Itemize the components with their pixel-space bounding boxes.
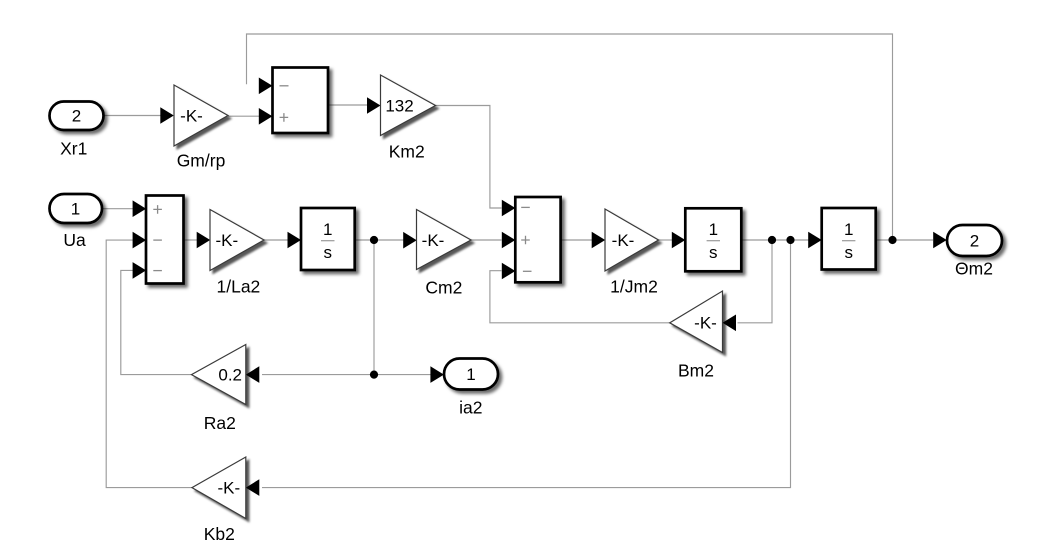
wire Km2 output down to Sum2 top input: [436, 106, 502, 209]
arrowhead into Gm/rp: [160, 107, 174, 124]
wire Gm/rp to Sum1 plus input: [228, 115, 260, 117]
arrowhead into ia2 outport: [430, 366, 444, 383]
arrowhead into 1/Jm2: [592, 232, 606, 249]
svg-text:Gm/rp: Gm/rp: [177, 151, 226, 171]
wire Ua to Sum3 plus input: [102, 208, 134, 210]
gain Kb2 (left pointing): [192, 457, 246, 519]
svg-text:Kb2: Kb2: [204, 524, 235, 544]
Sum1 plus sign: [280, 113, 289, 122]
wire 1/La2 to integrator 1: [264, 239, 288, 241]
svg-text:s: s: [709, 243, 718, 262]
Sum2 bottom minus sign: [523, 270, 532, 272]
sum block Sum1: [273, 68, 329, 134]
arrowhead into Sum2 bottom minus port: [502, 263, 516, 280]
integrator 3: [822, 208, 876, 270]
svg-text:-K-: -K-: [217, 479, 240, 498]
wire branch down to Bm2 input: [738, 240, 773, 323]
Sum3 middle minus sign: [153, 239, 162, 241]
inport Xr1 oval: [50, 102, 104, 131]
wire integrator 3 output to Theta m2 outport: [876, 239, 933, 241]
gain Gm/rp: [174, 85, 228, 146]
junction dot after integrator 2 (Bm2 branch): [768, 236, 776, 244]
junction dot (Kb2 branch): [786, 236, 794, 244]
arrowhead into Kb2 (left pointing): [246, 479, 259, 496]
wire Bm2 output up to Sum2 bottom input: [490, 271, 670, 323]
svg-text:ia2: ia2: [459, 398, 482, 418]
junction dot at Ra2 branch: [370, 371, 378, 379]
arrowhead into Bm2 (left pointing): [723, 315, 737, 332]
svg-text:Xr1: Xr1: [60, 139, 87, 159]
sum block Sum3: [146, 196, 184, 284]
svg-text:0.2: 0.2: [218, 366, 242, 385]
svg-text:s: s: [323, 243, 332, 262]
Sum2 plus sign: [521, 236, 530, 245]
svg-text:-K-: -K-: [694, 314, 717, 333]
arrowhead into Sum2 top minus port: [502, 200, 516, 217]
svg-text:Ra2: Ra2: [204, 413, 236, 433]
wire Ra2 output up to Sum3 bottom input: [121, 270, 192, 374]
wire junction to Ra2 input: [262, 374, 374, 376]
wire Sum3 output to 1/La2: [184, 239, 198, 241]
wire integrator 1 output to Cm2: [355, 239, 404, 241]
arrowhead into Sum3 middle minus port: [133, 232, 147, 249]
svg-text:1: 1: [323, 220, 332, 239]
wire branch down to Kb2 input: [262, 240, 791, 488]
integrator 1: [301, 208, 355, 270]
wire top feedback from theta dot to Sum1 minus input: [247, 34, 893, 240]
svg-text:s: s: [844, 243, 853, 262]
junction dot after integrator 3 (top feedback branch): [888, 236, 896, 244]
wire Cm2 to Sum2 middle input: [471, 239, 502, 241]
arrowhead into integrator 2: [672, 232, 686, 249]
svg-text:1: 1: [71, 200, 80, 219]
svg-text:Θm2: Θm2: [955, 259, 993, 279]
inport Ua oval: [50, 194, 103, 223]
junction dot after integrator 1: [370, 236, 378, 244]
svg-text:1/La2: 1/La2: [217, 277, 261, 297]
svg-text:-K-: -K-: [180, 107, 203, 126]
wire Sum2 output to 1/Jm2: [561, 239, 593, 241]
svg-text:Cm2: Cm2: [425, 278, 462, 298]
sum block Sum2: [515, 197, 560, 282]
arrowhead into Km2: [367, 97, 381, 114]
integrator 2: [685, 208, 741, 271]
svg-text:1: 1: [466, 365, 475, 384]
arrowhead into integrator 3: [808, 232, 822, 249]
svg-text:1: 1: [844, 220, 853, 239]
arrowhead into Cm2: [403, 232, 417, 249]
outport Theta m2 oval: [947, 225, 1002, 256]
arrowhead into 1/La2: [197, 232, 211, 249]
wire branch down to Ra2 junction: [373, 240, 375, 375]
svg-text:-K-: -K-: [612, 231, 635, 250]
svg-text:132: 132: [385, 97, 413, 116]
svg-text:Ua: Ua: [63, 230, 86, 250]
wire Xr1 to Gm/rp: [104, 115, 162, 117]
wire Kb2 output up to Sum3 middle input: [106, 240, 192, 488]
arrowhead into integrator 1: [288, 232, 302, 249]
wire 1/Jm2 to integrator 2: [659, 239, 674, 241]
svg-text:Km2: Km2: [389, 142, 425, 162]
arrowhead into Sum1 minus port: [259, 78, 273, 95]
arrowhead into Ra2 (left pointing): [246, 366, 259, 383]
gain Bm2 (left pointing): [670, 291, 723, 353]
wire integrator 2 output to integrator 3: [742, 239, 809, 241]
gain Ra2 (left pointing): [192, 345, 246, 405]
Sum3 plus sign: [153, 205, 162, 214]
Sum1 minus sign: [280, 85, 289, 87]
gain 1/Jm2: [605, 209, 659, 271]
arrowhead into Sum3 plus port: [133, 200, 147, 217]
Sum2 top minus sign: [521, 206, 530, 208]
arrowhead into Sum1 plus port: [259, 108, 273, 125]
gain 1/La2: [210, 210, 264, 271]
svg-text:Bm2: Bm2: [678, 361, 714, 381]
outport ia2 oval: [444, 359, 498, 390]
gain Km2: [381, 75, 436, 136]
wire Sum1 output to Km2: [328, 104, 368, 106]
svg-text:2: 2: [970, 232, 979, 251]
arrowhead into Theta m2 outport: [933, 232, 947, 249]
arrowhead into Sum2 middle plus port: [502, 232, 516, 249]
arrowhead into Sum3 bottom minus port: [133, 262, 147, 279]
svg-text:-K-: -K-: [422, 231, 445, 250]
gain Cm2: [417, 210, 472, 270]
svg-text:1/Jm2: 1/Jm2: [610, 277, 658, 297]
wire junction to ia2 outport: [374, 374, 431, 376]
svg-text:-K-: -K-: [215, 231, 238, 250]
svg-text:2: 2: [72, 107, 81, 126]
Sum3 bottom minus sign: [153, 270, 162, 272]
svg-text:1: 1: [709, 220, 718, 239]
